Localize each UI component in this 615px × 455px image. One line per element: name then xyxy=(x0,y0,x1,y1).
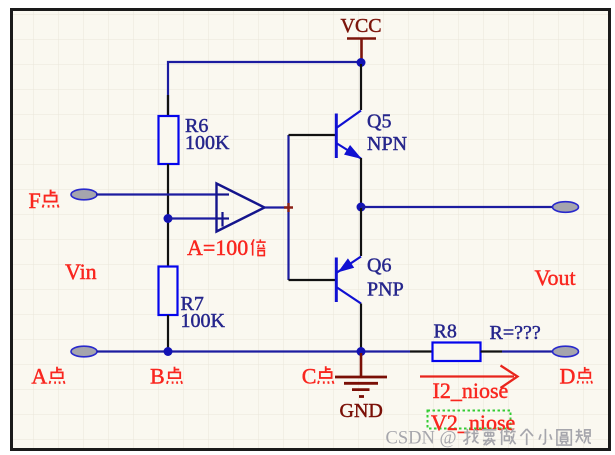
wire top rail xyxy=(168,62,361,116)
svg-text:Q6: Q6 xyxy=(367,255,391,277)
op-amp U1 xyxy=(217,184,265,232)
svg-text:R=???: R=??? xyxy=(490,322,541,344)
wire tap to op-amp plus xyxy=(168,217,216,219)
resistor R8 lead right xyxy=(481,350,503,352)
label V2_niose xyxy=(431,410,515,435)
wire R6 to R7 xyxy=(167,164,169,266)
resistor R7 xyxy=(159,267,226,333)
svg-text:100K: 100K xyxy=(181,310,226,332)
svg-text:I2_niose: I2_niose xyxy=(433,378,509,403)
svg-text:Vin: Vin xyxy=(65,259,97,284)
transistor Q6 xyxy=(336,255,403,304)
junction out node xyxy=(357,203,366,212)
svg-text:Vout: Vout xyxy=(535,265,576,290)
port D xyxy=(553,346,579,357)
wire Q5 base xyxy=(289,134,336,136)
svg-text:R8: R8 xyxy=(434,321,457,343)
junction B node xyxy=(164,347,173,356)
svg-text:C: C xyxy=(302,364,317,389)
wire Q6 base xyxy=(289,279,336,281)
box V2 highlight xyxy=(428,411,511,429)
transistor Q5 xyxy=(336,110,407,158)
wire R7 to bottom rail xyxy=(167,315,169,351)
resistor R6 xyxy=(159,115,231,164)
junction C node xyxy=(357,347,366,356)
label Vout xyxy=(535,265,576,290)
wire op-amp output xyxy=(265,206,289,208)
svg-text:A=100: A=100 xyxy=(187,235,248,260)
wire bottom rail xyxy=(97,350,410,352)
svg-text:A: A xyxy=(31,364,47,389)
label Vin xyxy=(65,259,97,284)
label A点 xyxy=(31,364,64,389)
wire VCC to Q5 collector xyxy=(360,64,362,110)
junction VCC node xyxy=(357,58,366,67)
port out right xyxy=(553,202,579,213)
svg-text:VCC: VCC xyxy=(341,15,382,37)
label I2_niose xyxy=(433,378,509,403)
wire F to op-amp xyxy=(96,193,216,195)
svg-text:Q5: Q5 xyxy=(367,110,391,132)
wire Q5 emitter to out node xyxy=(360,158,362,206)
svg-text:GND: GND xyxy=(340,400,383,422)
label A=100倍 xyxy=(187,235,266,260)
svg-text:F: F xyxy=(29,188,41,213)
wire out node to Q6 emitter xyxy=(360,208,362,256)
port F xyxy=(71,189,97,200)
resistor R8 xyxy=(433,321,481,362)
resistor R6 lead top xyxy=(167,95,169,116)
power VCC xyxy=(341,15,382,61)
label D点 xyxy=(560,363,593,388)
wire R8 to port D xyxy=(502,350,553,352)
svg-text:NPN: NPN xyxy=(367,133,407,155)
svg-text:B: B xyxy=(150,364,165,389)
svg-text:D: D xyxy=(560,363,576,388)
watermark CSDN xyxy=(386,429,592,449)
wire out node to port xyxy=(361,206,553,208)
junction B tap xyxy=(164,214,173,223)
no-ERC cross xyxy=(284,203,293,212)
svg-text:PNP: PNP xyxy=(367,278,404,300)
current arrow I2 xyxy=(420,366,518,389)
label B点 xyxy=(150,364,182,389)
svg-text:CSDN @: CSDN @ xyxy=(386,429,457,449)
ground GND xyxy=(335,353,387,422)
label F点 xyxy=(29,188,59,213)
label C点 xyxy=(302,364,334,389)
label R=??? xyxy=(490,322,541,344)
svg-text:100K: 100K xyxy=(185,132,230,154)
port A xyxy=(71,346,97,357)
resistor R8 lead left xyxy=(410,350,433,352)
wire op-amp to bases vertical xyxy=(287,135,289,280)
wire Q6 collector to C node xyxy=(360,304,362,351)
